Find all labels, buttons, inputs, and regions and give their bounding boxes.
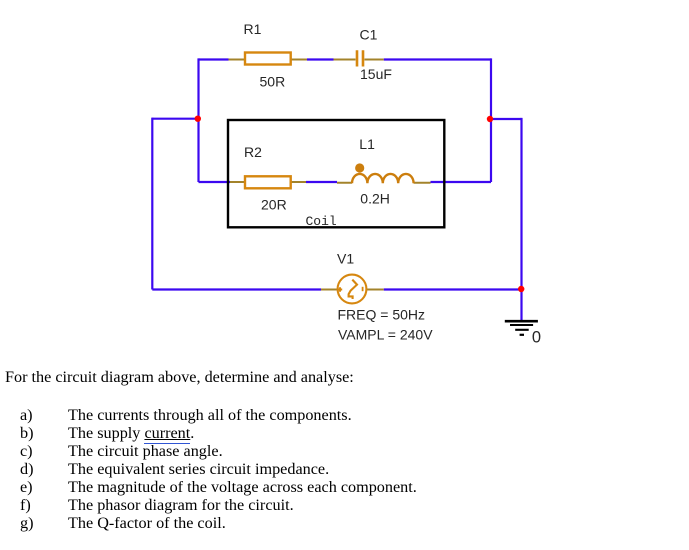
wire C1 to top-right corner	[384, 58, 491, 60]
capacitor C1	[334, 27, 392, 82]
wire right inner vertical	[490, 58, 492, 182]
wire left inner vertical	[197, 58, 199, 182]
coil box	[228, 120, 444, 227]
wire down to ground	[520, 290, 522, 321]
wire outer right vertical	[520, 118, 522, 290]
voltage source V1	[321, 251, 433, 343]
inductor L1	[337, 136, 431, 206]
wire node to outer left	[152, 118, 198, 120]
wire between R1 and C1	[307, 58, 334, 60]
wire between R2 and L1	[306, 181, 337, 183]
wire top-left	[199, 58, 229, 60]
wire bottom left	[152, 288, 321, 290]
junction node right	[487, 116, 493, 122]
ground 0	[505, 321, 541, 347]
junction node left	[195, 116, 201, 122]
resistor R2	[230, 144, 306, 213]
resistor R1	[229, 21, 308, 90]
wire outer left vertical	[151, 118, 153, 290]
wire L1 to right vertical	[431, 181, 492, 183]
wire left vertical to R2	[199, 181, 231, 183]
wire node to outer right	[491, 118, 522, 120]
junction node bottom	[518, 286, 524, 292]
wire bottom right	[384, 288, 522, 290]
